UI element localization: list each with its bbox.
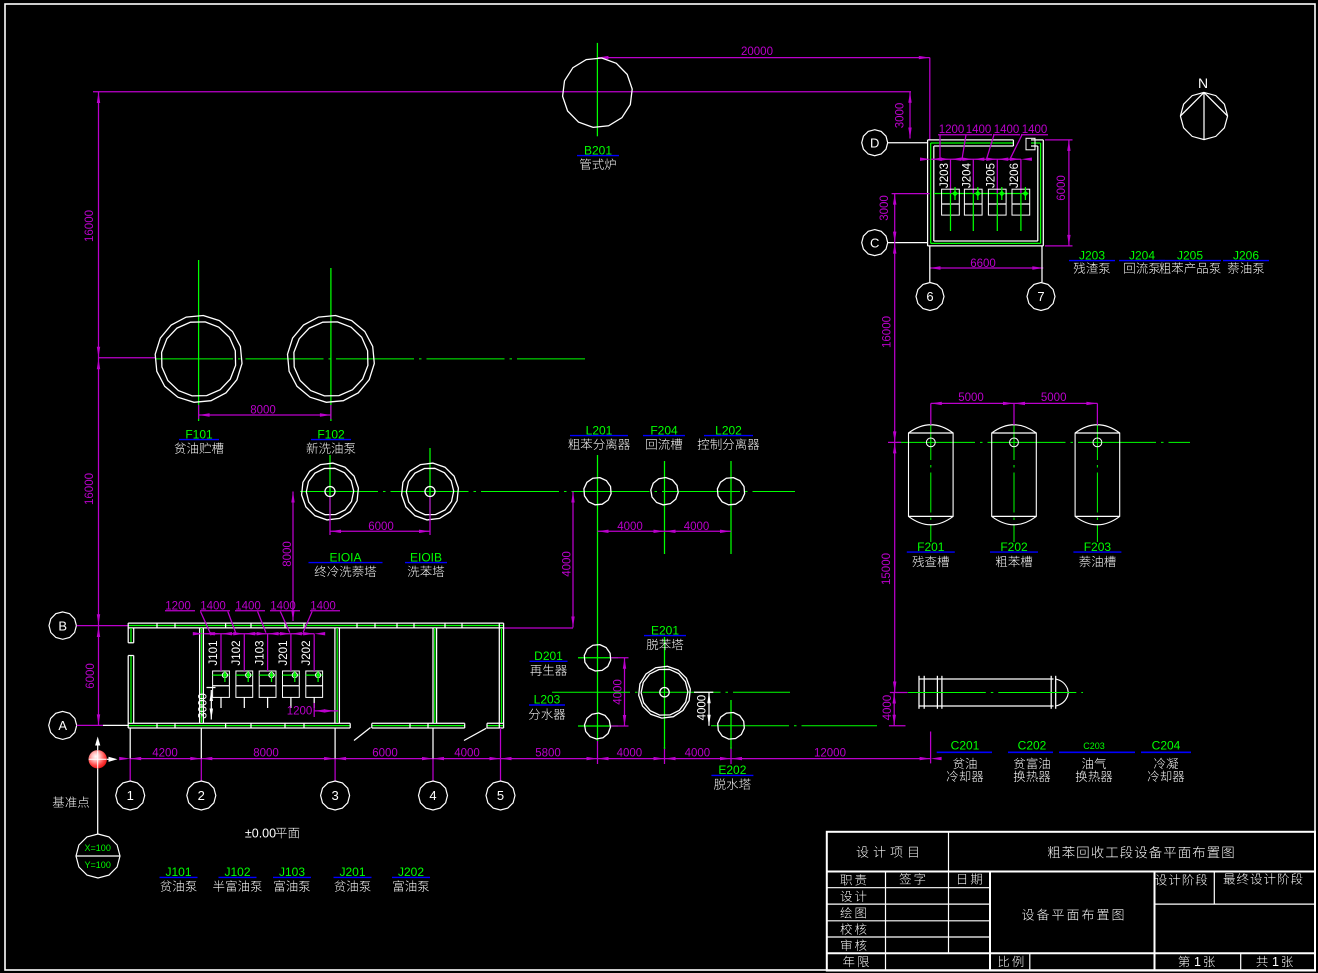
svg-text:J101: J101 <box>208 641 220 666</box>
building bottom wall <box>128 722 350 724</box>
grid bubble 1 <box>116 781 145 810</box>
pump J103 <box>259 671 276 697</box>
dimension 5000 F201-F202 <box>930 403 932 425</box>
svg-text:3000: 3000 <box>197 693 209 719</box>
svg-text:3: 3 <box>331 788 338 803</box>
dimension 3000 top-right <box>909 92 911 139</box>
grid bubble 5 <box>486 781 515 810</box>
datum arrow up <box>97 740 99 750</box>
pump J102 <box>236 671 253 697</box>
dimension 8000 vertical <box>292 492 294 622</box>
svg-text:4000: 4000 <box>562 551 574 577</box>
centerline tank-row <box>897 441 1190 443</box>
sheet numbers <box>1178 956 1189 967</box>
dimension 4000 E201-E202 white <box>708 692 710 726</box>
svg-text:5: 5 <box>497 788 504 803</box>
svg-text:4000: 4000 <box>684 521 710 533</box>
svg-text:6000: 6000 <box>372 748 398 760</box>
building interior wall grid3 <box>334 628 336 723</box>
svg-text:7: 7 <box>1037 289 1044 304</box>
dimension 6600 house width <box>930 267 1044 269</box>
vessel F204 centerline <box>664 461 666 554</box>
pump J202 <box>306 671 323 697</box>
grid bubble 2 <box>187 781 216 810</box>
tank F101 centerline <box>198 260 200 421</box>
svg-text:X=100: X=100 <box>85 843 111 853</box>
svg-text:J201: J201 <box>278 641 290 666</box>
tank F202 <box>992 425 1037 525</box>
dimension 3000 motor-C <box>894 194 896 243</box>
tower E101A <box>302 463 359 520</box>
label datum <box>53 796 89 807</box>
svg-text:J205: J205 <box>986 163 998 188</box>
separator L202 centerline <box>730 461 732 554</box>
dimension 16000 C-F201 <box>894 243 896 443</box>
svg-text:A: A <box>58 718 67 733</box>
building left wall <box>127 623 129 643</box>
dimension 6000 house height <box>1068 140 1070 246</box>
svg-text:16000: 16000 <box>84 473 96 505</box>
wire extension 12000 end <box>930 732 932 764</box>
heat exchanger centerline <box>908 692 1083 694</box>
tower E101B <box>402 463 459 520</box>
wire dim ticks L-row <box>597 741 599 764</box>
pump house walls <box>928 139 1014 141</box>
building top wall <box>128 622 503 624</box>
svg-text:±0.00: ±0.00 <box>245 827 276 841</box>
tank F102 <box>288 316 375 403</box>
pump J201 <box>283 671 300 697</box>
tank F203 centerline <box>1096 420 1098 542</box>
grid bubble 7 <box>1027 283 1055 311</box>
tank F201 centerline <box>930 420 932 542</box>
wire grid-line y92 <box>93 91 911 93</box>
svg-text:6: 6 <box>926 289 933 304</box>
svg-text:J102: J102 <box>231 641 243 666</box>
dimension 4000 F204-L202 <box>665 530 732 532</box>
tower E101A centerline <box>329 455 331 519</box>
dimension 8000 F101-F102 <box>198 405 200 419</box>
svg-text:1: 1 <box>1272 955 1279 969</box>
svg-text:3000: 3000 <box>879 195 891 221</box>
pump J203 <box>950 159 952 193</box>
svg-text:5000: 5000 <box>958 392 984 404</box>
separator L201 centerline <box>597 455 599 741</box>
dimension chain left 16000/16000/6000 <box>98 92 100 725</box>
svg-text:16000: 16000 <box>882 316 894 348</box>
svg-text:6000: 6000 <box>85 663 97 689</box>
svg-text:C201: C201 <box>951 739 980 753</box>
pump J206 <box>1020 159 1022 193</box>
tower E101B centerline <box>429 448 431 519</box>
wire grid 3 extension <box>334 728 336 759</box>
tank F201 <box>909 425 954 525</box>
svg-text:5800: 5800 <box>535 748 561 760</box>
centerline tower-row <box>300 491 795 493</box>
svg-text:J203: J203 <box>939 163 951 188</box>
pump motor centerline house <box>934 193 1029 195</box>
grid bubble C <box>862 230 888 256</box>
dimension 4000 E-row right <box>893 693 895 726</box>
grid bubble B <box>49 612 76 639</box>
dimension 20000 <box>597 57 929 59</box>
wire grid 5 extension <box>500 728 502 759</box>
svg-text:4000: 4000 <box>685 748 711 760</box>
door swing 2 <box>464 728 486 740</box>
title block texts <box>857 846 918 858</box>
wire grid-line B right segment <box>504 627 573 629</box>
svg-text:4000: 4000 <box>697 695 709 721</box>
north arrow <box>1180 92 1227 139</box>
svg-text:N: N <box>1198 75 1208 91</box>
wire grid 1 extension <box>129 728 131 759</box>
svg-text:4000: 4000 <box>617 521 643 533</box>
centerline F-row <box>155 358 585 360</box>
furnace B201 <box>563 58 633 127</box>
wire grid 2 extension <box>200 728 202 759</box>
dimension chain 1200/1400 pump house <box>931 158 1021 160</box>
svg-text:8000: 8000 <box>253 748 279 760</box>
tower E201 <box>664 637 666 749</box>
wire tick F-row <box>888 441 901 443</box>
svg-text:C202: C202 <box>1018 739 1047 753</box>
svg-text:D: D <box>870 135 879 150</box>
dimension 15000 <box>894 442 896 692</box>
pump J205 <box>996 159 998 193</box>
door jambs pump house <box>1012 140 1014 146</box>
building interior wall grid2 <box>199 628 201 723</box>
tower E202 <box>711 725 877 727</box>
svg-text:6000: 6000 <box>368 521 394 533</box>
title block table <box>827 832 1315 971</box>
vessel F204 <box>651 478 678 505</box>
svg-text:J206: J206 <box>1009 163 1021 188</box>
svg-text:B: B <box>58 618 67 633</box>
pump J204 <box>972 159 974 193</box>
datum arrow right <box>107 758 112 760</box>
dimension 4000 vertical <box>572 492 574 628</box>
svg-text:12000: 12000 <box>814 748 846 760</box>
tank F102 centerline <box>330 268 332 421</box>
svg-text:2: 2 <box>198 788 205 803</box>
tank F202 centerline <box>1013 420 1015 542</box>
svg-text:J204: J204 <box>962 162 974 188</box>
door swing 1 <box>354 728 371 741</box>
svg-text:1: 1 <box>127 788 134 803</box>
tank F101 <box>155 316 242 403</box>
wire grid 6 extension <box>929 246 931 282</box>
svg-text:1200: 1200 <box>287 705 313 717</box>
dimension 4000 D201-L203 <box>624 658 626 726</box>
tank F203 <box>1075 425 1120 525</box>
dimension 4000 L201-F204 <box>598 530 665 532</box>
dimension 5000 F202-F203 <box>1014 402 1097 404</box>
svg-text:16000: 16000 <box>84 210 96 242</box>
grid bubble 3 <box>321 781 350 810</box>
heat exchanger head <box>1056 679 1069 706</box>
svg-text:J103: J103 <box>255 641 267 666</box>
svg-text:3000: 3000 <box>895 103 907 129</box>
grid bubble A <box>49 711 77 739</box>
svg-text:4000: 4000 <box>617 748 643 760</box>
furnace B201 centerline <box>596 43 598 136</box>
dimension 3000 interior white <box>210 690 212 720</box>
water separator L203 <box>578 725 618 727</box>
grid bubble D <box>862 130 888 156</box>
dimension chain bottom <box>130 758 930 760</box>
svg-text:C204: C204 <box>1152 739 1181 753</box>
svg-text:J202: J202 <box>301 641 313 666</box>
svg-text:15000: 15000 <box>881 553 893 585</box>
svg-text:4000: 4000 <box>882 695 894 721</box>
building right wall <box>498 623 500 728</box>
wire B leader <box>77 625 130 627</box>
regenerator D201 <box>578 657 618 659</box>
svg-text:8000: 8000 <box>282 541 294 567</box>
separator L202 <box>717 478 744 505</box>
svg-text:6000: 6000 <box>1056 175 1068 201</box>
wire datum to coordinate bubble <box>97 769 99 835</box>
svg-text:4: 4 <box>429 788 436 803</box>
grid bubble 4 <box>419 781 448 810</box>
svg-text:C: C <box>870 235 879 250</box>
svg-text:20000: 20000 <box>741 46 773 58</box>
svg-text:8000: 8000 <box>250 404 276 416</box>
heat exchanger body <box>919 678 1054 680</box>
building interior wall grid4 <box>432 628 434 723</box>
svg-text:1: 1 <box>1194 955 1201 969</box>
grid bubble 6 <box>916 283 944 311</box>
wire A leader <box>77 724 103 726</box>
svg-text:5000: 5000 <box>1041 392 1067 404</box>
svg-text:4000: 4000 <box>454 748 480 760</box>
coordinate bubble X=100 Y=100 <box>76 834 120 878</box>
svg-text:C203: C203 <box>1083 741 1105 751</box>
dimension chain 1200/1400 building <box>204 633 314 635</box>
pump J101 <box>213 671 230 697</box>
dimension 6000 towers <box>329 497 331 535</box>
svg-text:4200: 4200 <box>152 748 178 760</box>
svg-text:6600: 6600 <box>970 258 996 270</box>
separator L201 <box>584 478 611 505</box>
wire grid 7 extension <box>1041 246 1043 282</box>
wire grid 4 extension <box>432 728 434 759</box>
centerline E201 row <box>552 691 790 693</box>
svg-text:Y=100: Y=100 <box>85 860 111 870</box>
